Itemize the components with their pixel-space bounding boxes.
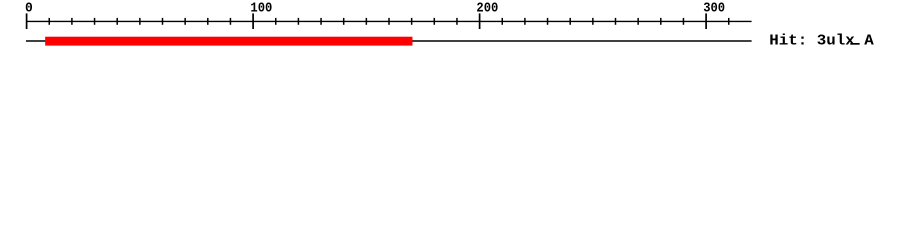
minor tick 190 (456, 18, 458, 25)
minor tick 110 (275, 18, 277, 25)
minor tick 230 (547, 18, 549, 25)
minor tick 40 (116, 18, 118, 25)
minor tick 310 (728, 18, 730, 25)
minor tick 250 (592, 18, 594, 25)
minor tick 270 (637, 18, 639, 25)
svg-text:Hit: 3ulx A: Hit: 3ulx A (769, 34, 874, 50)
minor tick 30 (94, 18, 96, 25)
major tick 100 (252, 13, 254, 29)
minor tick 160 (388, 18, 390, 25)
minor tick 10 (48, 18, 50, 25)
minor tick 180 (433, 18, 435, 25)
minor tick 50 (139, 18, 141, 25)
minor tick 210 (501, 18, 503, 25)
minor tick 170 (411, 18, 413, 25)
ruler axis line (26, 20, 752, 22)
minor tick 60 (162, 18, 164, 25)
minor tick 70 (184, 18, 186, 25)
hit label underscore (850, 43, 859, 45)
minor tick 150 (365, 18, 367, 25)
minor tick 280 (660, 18, 662, 25)
minor tick 140 (343, 18, 345, 25)
minor tick 290 (682, 18, 684, 25)
minor tick 260 (615, 18, 617, 25)
minor tick 90 (229, 18, 231, 25)
query sequence line (26, 40, 752, 42)
minor tick 240 (569, 18, 571, 25)
major tick 0 (26, 13, 28, 29)
major tick 300 (705, 13, 707, 29)
minor tick 130 (320, 18, 322, 25)
minor tick 80 (207, 18, 209, 25)
minor tick 220 (524, 18, 526, 25)
major tick 200 (479, 13, 481, 29)
minor tick 120 (297, 18, 299, 25)
minor tick 20 (71, 18, 73, 25)
hit bar (red, residues ~8-170) (45, 37, 412, 46)
